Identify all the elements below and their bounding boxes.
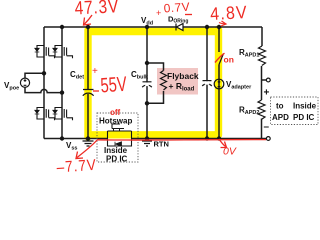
svg-text:RTN: RTN [154,140,169,149]
wire: adapter source branch [218,27,220,139]
svg-text:Flyback: Flyback [167,71,199,81]
transistor Q4 (bridge bottom-right MOSFET with body diode) [53,108,73,121]
resistor R_APD1 [259,46,266,66]
resistor Rload zigzag in flyback box [161,71,167,91]
wire: Vpoe negative lead with hop over branch A [25,87,62,93]
annotation: red arrow to Vdd corner [84,15,93,25]
resistor R_APD2 [258,100,265,120]
wire: bottom rail RTN [44,138,261,140]
node: RTN ground junction [145,136,149,140]
annotation: red line along RTN rail [97,139,266,142]
node: Vdd label junction [145,25,149,29]
node: flyback bottom junction [145,101,149,105]
svg-text:–: – [264,122,270,133]
svg-text:PD IC: PD IC [106,155,128,164]
transistor hotswap MOSFET with body diode [108,124,132,146]
terminal: APD+ output [266,78,270,82]
svg-text:to: to [276,102,284,111]
annotation: red slash marking switch on [215,53,225,62]
wire: tap to APD+ terminal [262,79,267,81]
svg-text:Inside: Inside [293,102,317,111]
svg-text:PD IC: PD IC [293,113,315,122]
svg-text:on: on [224,55,234,65]
node: adapter source bottom junction [217,136,221,140]
node: Vss ground junction [86,136,90,140]
node: adapter cap bottom junction [205,136,209,140]
annotation: small red arrow from 4.8V to node [219,21,226,26]
wire: Cbulk / Vdd branch [146,27,148,139]
svg-text:–7.7V: –7.7V [56,157,97,174]
svg-text:APD: APD [272,113,289,122]
yellow highlighter loop [88,29,219,137]
flyback load pink box [157,68,198,95]
capacitor Cbulk [142,82,152,87]
node: adapter cap top junction [205,25,209,29]
svg-text:55V: 55V [100,72,128,97]
wire: Cdet branch [87,27,89,139]
wire: adapter capacitor branch [206,27,208,139]
wire: Vpoe positive lead [25,73,44,78]
transistor Q2 (bridge top-right MOSFET with body diode) [53,46,73,59]
svg-text:0.7V: 0.7V [163,0,190,15]
terminal: APD- output [266,137,270,141]
svg-text:0V: 0V [223,146,237,158]
node: flyback top junction [145,61,149,65]
node: Vpoe+ / branch A junction [42,71,46,75]
node: Vdd rail / Cdet junction [86,25,90,29]
wire: flyback branch loop [147,63,164,103]
svg-text:4.8V: 4.8V [210,2,249,24]
node: branch B bottom junction [60,136,64,140]
dotted box: hotswap inside PD IC [97,113,138,162]
capacitor Cdet [83,90,94,96]
svg-text:+: + [92,66,98,77]
annotation: red arrow to -7.7V [76,140,97,159]
node: adapter source top junction [217,25,221,29]
wire: right bridge branch B [61,27,63,139]
svg-text:+: + [156,8,161,18]
wire: tap to APD- terminal [261,138,267,140]
ground RTN [142,139,152,147]
source Vpoe [20,78,29,87]
capacitor C adapter [202,81,212,86]
wire: right APD divider line [261,27,264,139]
node: Vpoe- / branch B junction [60,90,64,94]
ground Vss [83,139,94,147]
wire: left bridge branch A [43,27,45,139]
source V adapter [214,79,224,89]
wire: top rail Vdd [44,26,262,28]
node: Vdd rail / branch B junction [60,25,64,29]
diode D_ORing [176,24,183,31]
dotted box: to APD inside PD IC [271,97,319,125]
svg-text:47.3V: 47.3V [74,0,120,19]
transistor Q1 (bridge top-left MOSFET with body diode) [35,46,55,59]
annotation: red arrow to 0V [219,139,227,148]
svg-text:+: + [264,88,270,99]
transistor Q3 (bridge bottom-left MOSFET with body diode) [35,108,55,121]
switch (adapter on switch) [219,54,224,65]
